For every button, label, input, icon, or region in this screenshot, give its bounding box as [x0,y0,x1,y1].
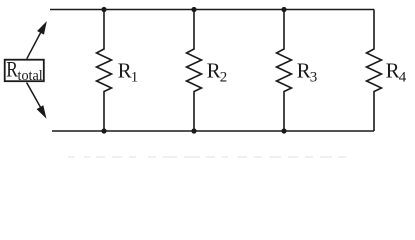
label R2 [207,59,228,86]
svg-text:1: 1 [131,70,139,86]
svg-text:R: R [118,59,132,83]
wire top bus [50,9,374,11]
svg-text:2: 2 [220,70,228,86]
arrow to bottom wire [27,83,46,118]
svg-text:R: R [207,59,221,83]
node dot top R1 [101,7,106,12]
svg-text:total: total [18,68,43,84]
wire bottom bus [52,130,374,132]
label Rtotal [6,57,43,85]
node dot bottom R3 [281,128,286,133]
resistor R4 [367,10,382,132]
resistor R3 [277,10,292,132]
cropped text remnants at bottom edge [68,156,346,158]
svg-text:R: R [386,59,400,83]
resistor R1 [97,10,112,132]
box Rtotal [5,60,44,81]
svg-text:3: 3 [310,70,318,86]
node dot top R3 [281,7,286,12]
node dot top R2 [191,7,196,12]
node dot bottom R1 [101,128,106,133]
arrow to top wire [27,23,46,59]
label R1 [118,59,139,86]
svg-text:R: R [6,57,18,82]
label R4 [386,59,407,86]
label R3 [297,59,318,86]
svg-text:4: 4 [399,70,407,86]
node dot bottom R2 [191,128,196,133]
resistor R2 [187,10,202,132]
svg-text:R: R [297,59,311,83]
